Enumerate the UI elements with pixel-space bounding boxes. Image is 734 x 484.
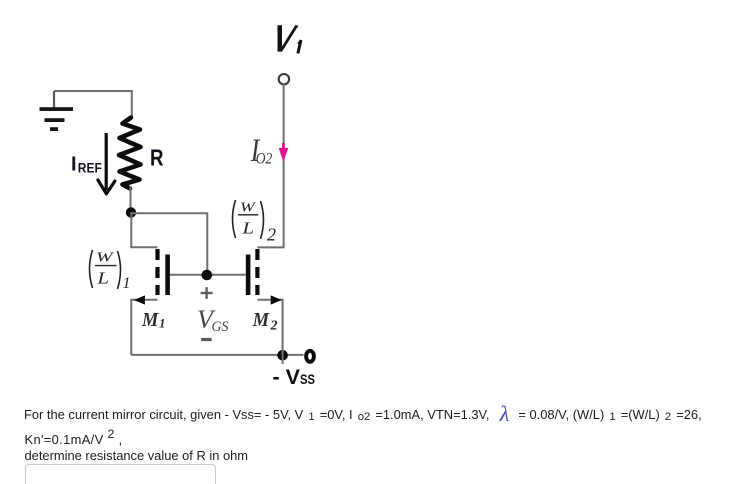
gate node junction dot — [202, 270, 213, 281]
label -VSS — [273, 365, 316, 389]
svg-text:I: I — [71, 154, 77, 176]
resistor R — [119, 118, 141, 189]
output terminal ring — [306, 351, 314, 362]
label V1 — [278, 25, 302, 53]
current arrow IO2 — [279, 143, 289, 162]
label VGS — [197, 305, 229, 335]
label (W/L)2 — [233, 200, 277, 245]
plus sign VGS — [201, 287, 213, 299]
problem text line 1 — [24, 407, 702, 422]
transistor M1 channel — [155, 249, 159, 295]
svg-text:2: 2 — [267, 225, 276, 245]
svg-text:SS: SS — [300, 372, 315, 387]
M1 source wire — [131, 300, 157, 355]
transistor M2 channel — [255, 249, 259, 295]
label (W/L)1 — [90, 250, 131, 292]
V1 terminal circle — [279, 74, 289, 84]
transistor M2 gate bar — [246, 255, 251, 296]
svg-text:REF: REF — [78, 161, 102, 176]
minus sign VGS — [201, 338, 211, 341]
wire resistor bottom to node — [130, 186, 132, 212]
label M1 — [141, 309, 165, 331]
problem text line 3 — [25, 448, 249, 463]
wire node to M1 drain — [131, 212, 157, 247]
transistor M1 gate bar — [165, 255, 170, 296]
node A junction dot — [126, 207, 136, 217]
M1 source arrow — [134, 295, 145, 304]
wire node to gates — [131, 213, 207, 274]
svg-text:1: 1 — [123, 275, 131, 292]
svg-text:W: W — [96, 251, 114, 266]
svg-text:W: W — [240, 201, 256, 216]
answer input box — [25, 464, 216, 484]
label M2 — [252, 309, 278, 334]
svg-text:- V: - V — [273, 365, 301, 389]
svg-text:M: M — [141, 309, 159, 331]
bottom rail wire — [131, 354, 303, 356]
wire ground to resistor top — [54, 91, 132, 119]
svg-text:O2: O2 — [256, 151, 273, 168]
rail junction dot — [277, 350, 288, 361]
M2 source arrow — [271, 295, 282, 304]
svg-text:R: R — [150, 145, 164, 171]
svg-text:2: 2 — [270, 319, 278, 334]
svg-text:1: 1 — [159, 316, 166, 331]
svg-text:L: L — [96, 269, 109, 288]
wire V1 to M2 drain — [257, 84, 283, 248]
gate wire M1 to M2 — [170, 274, 246, 276]
svg-text:GS: GS — [212, 319, 229, 335]
svg-text:M: M — [252, 309, 270, 331]
label IO2 — [250, 133, 272, 169]
label IREF — [71, 154, 102, 176]
current arrow IREF — [98, 133, 115, 194]
M2 source wire — [257, 300, 282, 364]
problem text line 2 — [25, 432, 123, 447]
ground — [40, 91, 74, 131]
svg-text:L: L — [241, 219, 254, 238]
